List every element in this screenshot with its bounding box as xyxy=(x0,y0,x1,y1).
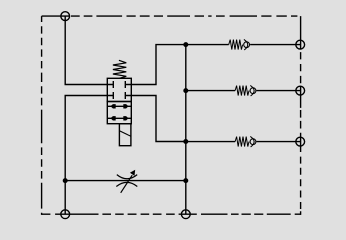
check valve CV2 spring xyxy=(235,86,249,96)
valve V1 body upper position box (closed ports) xyxy=(107,78,131,101)
valve V1 flow path arrow 2 xyxy=(107,116,131,120)
port circle top (pressure supply) xyxy=(61,12,70,21)
valve V1 solenoid actuator (bottom) xyxy=(119,124,130,146)
wire: row 3 left segment xyxy=(186,141,235,143)
throttle valve FT1 adjustment arrow xyxy=(121,170,136,193)
wire: row 2 left segment xyxy=(186,90,235,92)
valve V1 closed port bar lower-left xyxy=(112,92,114,99)
port circle P2 right row 2 xyxy=(296,86,305,95)
check valve CV2 seat arc xyxy=(250,85,254,96)
enclosure border top (dashed) xyxy=(42,15,298,17)
wire: row 3 right segment to port P3 xyxy=(256,141,300,143)
enclosure border right (dashed) xyxy=(300,16,302,215)
valve V1 body lower position box (flow position) xyxy=(107,102,131,124)
check valve CV2 ball xyxy=(250,88,256,94)
wire: valve upper-right port up to node row 1 xyxy=(125,45,186,85)
throttle valve FT1 upper arc xyxy=(117,175,137,179)
wire: row 1 left segment xyxy=(186,44,229,46)
throttle valve FT1 lower arc xyxy=(116,182,137,186)
check valve CV3 seat arc xyxy=(250,136,254,147)
check valve CV3 spring xyxy=(235,137,249,147)
valve V1 closed port bar lower-right xyxy=(124,92,126,99)
valve V1 closed port bar upper-left xyxy=(112,81,114,88)
enclosure border left (dashed) xyxy=(41,16,43,215)
check valve CV1 ball xyxy=(244,42,250,48)
port circle bottom left (tank) xyxy=(61,210,70,219)
wire: throttle line from left vertical to mid vertical xyxy=(65,180,186,182)
wire: row 1 right segment to port P1 xyxy=(250,44,301,46)
wire: row 2 right segment to port P2 xyxy=(256,90,300,92)
valve V1 return spring (top) xyxy=(113,60,126,78)
check valve CV3 ball xyxy=(250,139,256,145)
port circle P1 right row 1 xyxy=(296,40,305,49)
port circle P3 right row 3 xyxy=(296,137,305,146)
port circle bottom middle (tank) xyxy=(181,210,190,219)
junction node row 2 xyxy=(184,89,188,93)
junction node row 3 xyxy=(184,140,188,144)
wire: valve lower-right port down to node row 3 xyxy=(125,96,186,142)
junction node throttle left xyxy=(63,179,67,183)
valve V1 flow path arrow 1 xyxy=(107,104,131,108)
wire: mid vertical bus xyxy=(185,45,187,215)
wire: top port down to valve upper-left port xyxy=(65,16,113,84)
check valve CV1 spring xyxy=(229,40,243,50)
valve V1 closed port bar upper-right xyxy=(124,81,126,88)
junction node throttle right xyxy=(184,179,188,183)
enclosure border bottom (dashed) xyxy=(42,213,301,215)
wire: valve lower-left port down to bottom port xyxy=(65,96,113,215)
junction node row 1 xyxy=(184,43,188,47)
check valve CV1 seat arc xyxy=(244,39,248,50)
